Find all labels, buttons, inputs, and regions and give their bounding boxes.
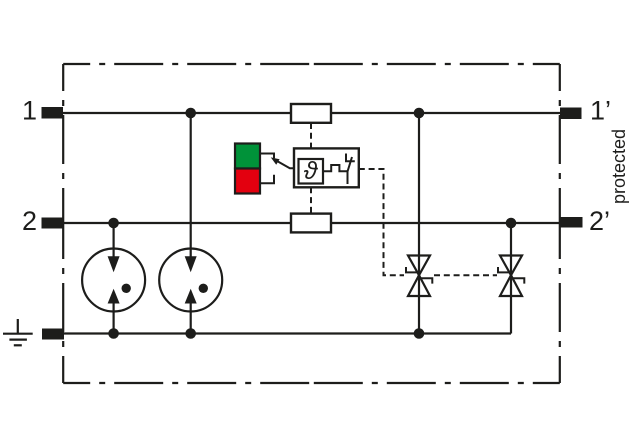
TVS suppressor diode D2 (498, 256, 524, 297)
indicator actuator arm with arrow (271, 157, 294, 168)
junction dot ground x113 (108, 328, 119, 339)
junction dot ground x190 (185, 328, 196, 339)
svg-text:2: 2 (22, 206, 37, 236)
wire line 2 (unprotected 2 to 2') (63, 222, 560, 224)
wire GDT1 column (112, 223, 114, 334)
earth ground symbol (3, 319, 33, 345)
dashed control link D1 to D2 (434, 274, 497, 276)
junction dot ground x419 (414, 328, 425, 339)
ground wire (64, 332, 511, 334)
dashed control line monitor output (359, 169, 404, 275)
thermal monitor unit U1 (294, 148, 359, 187)
junction dot line2 x511 (506, 218, 517, 229)
terminal block 1 (42, 107, 64, 119)
dashed link R1 to monitor (310, 123, 312, 148)
indicator green field (235, 144, 260, 169)
indicator contact top (260, 154, 274, 159)
svg-text:2’: 2’ (589, 206, 610, 236)
svg-text:protected: protected (609, 129, 629, 204)
wire GDT2 column (190, 113, 192, 334)
junction dot line1 x190 (185, 108, 196, 119)
resistor R2 (decoupling impedance in line 2) (291, 214, 331, 233)
resistor R1 (decoupling impedance in line 1) (291, 104, 331, 123)
terminal block 2 (42, 218, 64, 229)
svg-text:ϑ: ϑ (304, 157, 319, 185)
wire TVS diode D2 column (510, 223, 512, 334)
wire TVS diode D1 column (418, 113, 420, 334)
wire line 1 (unprotected 1 to 1') (63, 112, 560, 114)
terminal block ground (42, 329, 64, 340)
dashed link monitor to R2 (310, 187, 312, 213)
TVS suppressor diode D1 (406, 256, 432, 297)
gas discharge tube F1 (82, 248, 145, 312)
svg-text:1’: 1’ (590, 96, 611, 126)
junction dot line1 x419 (414, 108, 425, 119)
terminal block 1' (560, 108, 582, 120)
junction dot line2 x113 (108, 218, 119, 229)
terminal block 2' (561, 217, 583, 228)
indicator contact bottom (260, 175, 274, 184)
svg-text:1: 1 (22, 96, 37, 126)
indicator red field (235, 169, 260, 194)
gas discharge tube F2 (159, 248, 222, 312)
enclosure dash-dot border (63, 64, 560, 383)
